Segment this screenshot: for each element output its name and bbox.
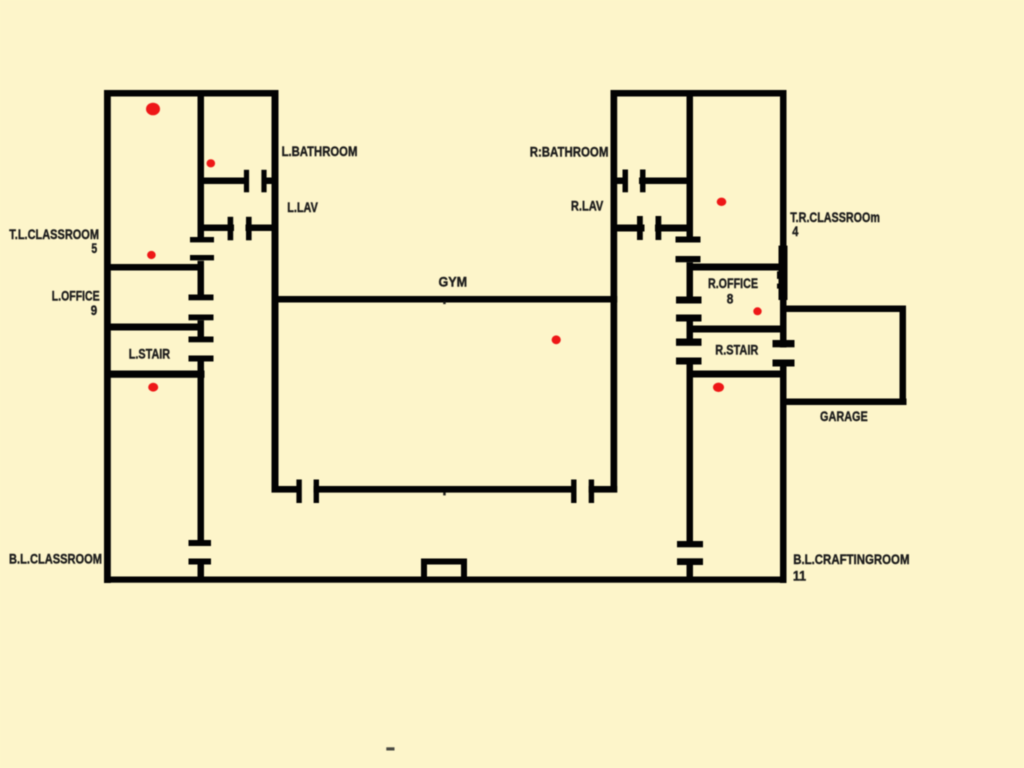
wall: right wing left wall / gym right wall: [611, 90, 618, 493]
wall: R.BATHROOM bottom wall left stub: [617, 178, 623, 185]
garage door: lower jamb cap: [773, 360, 795, 367]
small door notch upper on right wall: [777, 271, 781, 279]
gym: small nub below bottom wall center: [443, 492, 446, 495]
left corridor wall: stub to bottom wall: [198, 565, 205, 578]
wall: R.OFFICE bottom wall: [687, 326, 787, 333]
svg-text:R.OFFICE: R.OFFICE: [708, 276, 758, 291]
right corridor wall: B.L.CRAFTINGROOM left wall: [687, 365, 694, 542]
right outer wall: thicker segment beside office junction: [779, 246, 788, 300]
red dot: R.OFFICE: [753, 307, 761, 315]
wall: R.OFFICE top wall: [687, 264, 787, 271]
svg-text:T.L.CLASSROOM: T.L.CLASSROOM: [9, 227, 99, 242]
stray gray dash mark bottom center: [386, 747, 394, 750]
svg-text:GARAGE: GARAGE: [820, 409, 868, 424]
svg-text:B.L.CRAFTINGROOM: B.L.CRAFTINGROOM: [793, 552, 909, 567]
R.LAV door: right jamb: [656, 216, 662, 240]
R.STAIR door: upper jamb cap: [676, 339, 702, 346]
wall: L.OFFICE bottom wall: [104, 324, 198, 331]
L.LAV door: left jamb: [228, 217, 234, 241]
R.OFFICE door: upper jamb cap: [676, 297, 702, 304]
wall: right wing outer right wall upper segment: [780, 90, 787, 348]
garage: right wall: [900, 306, 907, 406]
left corridor wall: segment beside L.STAIR: [198, 320, 205, 336]
L.OFFICE door: upper jamb cap: [189, 295, 214, 301]
R.OFFICE door: lower jamb cap: [676, 315, 702, 322]
svg-text:L.STAIR: L.STAIR: [129, 347, 170, 362]
L.BATHROOM door: left jamb: [244, 170, 249, 193]
classroom 5 door: lower jamb cap: [190, 255, 214, 260]
classroom 5 door: upper jamb cap: [190, 237, 214, 242]
gym: top wall: [272, 296, 618, 303]
gym right door: left jamb: [571, 480, 576, 504]
svg-text:R.STAIR: R.STAIR: [715, 342, 758, 357]
right corridor wall: segment above classroom door: [687, 96, 694, 237]
wall: building bottom outer wall: [104, 577, 787, 583]
svg-text:L.OFFICE: L.OFFICE: [52, 289, 100, 304]
gym: small nub below top wall center: [443, 302, 446, 305]
gym: bottom wall left stub: [272, 486, 298, 493]
R.LAV door: left jamb: [637, 216, 643, 240]
wall: L.STAIR bottom wall: [104, 371, 205, 378]
L.OFFICE door: lower jamb cap: [189, 315, 214, 321]
svg-text:5: 5: [91, 241, 97, 256]
svg-text:8: 8: [727, 292, 734, 307]
wall: left wing top wall: [104, 90, 278, 97]
svg-text:4: 4: [792, 224, 799, 239]
svg-text:L.LAV: L.LAV: [287, 200, 318, 215]
wall: L.BATHROOM bottom wall: [204, 178, 247, 185]
gym: bottom wall right stub: [589, 486, 618, 493]
red dot: L.BATHROOM corridor: [207, 159, 216, 167]
svg-text:B.L.CLASSROOM: B.L.CLASSROOM: [9, 552, 102, 567]
B.L.CRAFTINGROOM door: upper jamb cap: [677, 541, 703, 547]
wall: left wing outer left wall: [104, 90, 111, 583]
right corridor wall: stub to bottom wall: [687, 565, 694, 578]
wall: L.LAV bottom wall left part: [204, 225, 234, 232]
B.L.CRAFTINGROOM door: lower jamb cap: [677, 558, 703, 565]
small door notch lower on right wall: [777, 284, 781, 289]
garage door: upper jamb cap: [773, 340, 795, 347]
L.LAV door: right jamb: [246, 217, 252, 241]
red dot: B.L.CLASSROOM: [148, 383, 158, 392]
T.R.CLASSROOM door: lower jamb cap: [676, 256, 701, 262]
svg-text:R.LAV: R.LAV: [571, 199, 603, 214]
R.BATHROOM door: left jamb: [623, 170, 629, 193]
svg-text:11: 11: [793, 568, 807, 583]
red dot: above L.OFFICE wall: [147, 251, 156, 259]
red dot: T.R.CLASSROOM: [717, 198, 727, 206]
left corridor wall: B.L.CLASSROOM right wall: [198, 362, 205, 542]
B.L.CLASSROOM door: upper jamb cap: [189, 540, 212, 546]
garage: top wall: [786, 306, 906, 313]
gym left door: right jamb: [314, 480, 319, 504]
entrance vestibule: left wall: [421, 559, 427, 583]
left corridor wall: segment beside L.OFFICE: [198, 261, 205, 295]
svg-text:9: 9: [91, 303, 97, 318]
red dot: B.L.CRAFTINGROOM: [713, 383, 724, 392]
R.STAIR door: lower jamb cap: [676, 358, 702, 365]
wall: L.LAV bottom wall right part: [246, 225, 273, 232]
wall: R.BATHROOM bottom wall: [639, 178, 687, 185]
wall: T.L.CLASSROOM 5 bottom wall: [104, 264, 198, 271]
L.STAIR door: upper jamb cap: [189, 337, 214, 343]
gym left door: left jamb: [296, 480, 301, 504]
svg-text:L.BATHROOM: L.BATHROOM: [282, 144, 358, 159]
gym: bottom wall middle: [314, 486, 576, 493]
wall: R.LAV bottom wall left part: [617, 225, 645, 232]
svg-text:GYM: GYM: [439, 275, 468, 290]
garage: bottom wall: [786, 399, 907, 406]
wall: L.BATHROOM bottom wall right stub: [262, 178, 273, 185]
svg-text:R:BATHROOM: R:BATHROOM: [530, 145, 609, 160]
left corridor wall: segment above classroom door: [198, 96, 205, 237]
wall: R.LAV bottom wall right part: [655, 225, 687, 232]
entrance vestibule: right wall: [461, 559, 467, 583]
svg-text:T.R.CLASSROOm: T.R.CLASSROOm: [790, 210, 880, 225]
wall: left wing right wall / gym left wall: [272, 90, 279, 493]
right corridor wall: segment beside R.STAIR: [687, 322, 694, 339]
red dot: T.L.CLASSROOM: [146, 103, 160, 116]
L.BATHROOM door: right jamb: [261, 170, 266, 193]
wall: right wing top wall: [611, 90, 787, 97]
entrance vestibule: top wall: [421, 559, 467, 565]
wall: R.STAIR bottom wall: [687, 371, 787, 378]
L.STAIR door: lower jamb cap: [189, 356, 214, 362]
T.R.CLASSROOM door: upper jamb cap: [676, 237, 701, 243]
gym right door: right jamb: [589, 480, 594, 504]
B.L.CLASSROOM door: lower jamb cap: [189, 559, 212, 565]
right corridor wall: segment beside R.OFFICE: [687, 262, 694, 296]
wall: right wing outer right wall lower segment: [780, 360, 787, 584]
red dot: GYM: [552, 335, 561, 344]
R.BATHROOM door: right jamb: [640, 170, 646, 193]
